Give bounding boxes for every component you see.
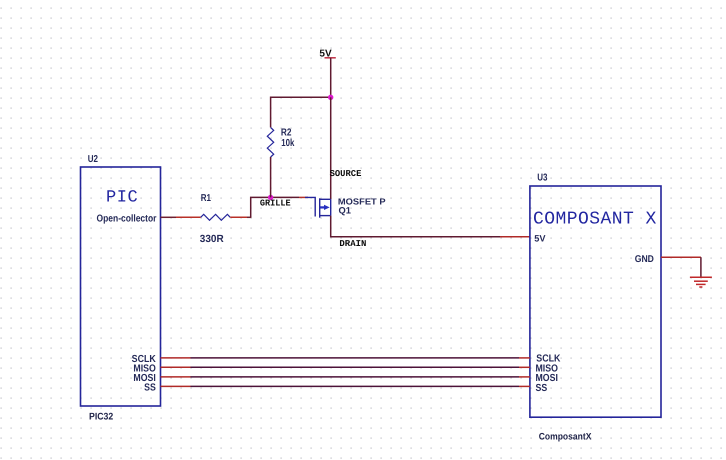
svg-text:SS: SS bbox=[144, 383, 156, 394]
wire SS (U2 to U3) bbox=[161, 385, 530, 387]
svg-text:330R: 330R bbox=[200, 234, 224, 245]
wire: short red segment before gate bbox=[299, 196, 308, 198]
pin stub: U2 Open-collector pin bbox=[161, 216, 177, 218]
transistor Q1 top (source) lead bbox=[320, 198, 331, 200]
svg-text:SS: SS bbox=[536, 383, 548, 394]
svg-text:PIC32: PIC32 bbox=[89, 412, 113, 423]
transistor Q1 gate plate bar bbox=[319, 198, 321, 217]
pin stub: U3 GND pin wire right bbox=[661, 256, 701, 258]
svg-text:COMPOSANT X: COMPOSANT X bbox=[533, 210, 657, 230]
wire: 5V rail down to junction bbox=[330, 58, 332, 98]
ground symbol bbox=[690, 277, 712, 287]
wire MISO (U2 to U3) bbox=[161, 366, 530, 368]
svg-text:10k: 10k bbox=[281, 138, 294, 149]
wire: MOSFET drain down bbox=[331, 216, 500, 237]
wire: GND down to ground bbox=[700, 257, 702, 277]
resistor R1 bbox=[201, 214, 231, 220]
transistor Q1 P-MOSFET gate lead bbox=[305, 197, 315, 216]
wire: R2 top lead up and right to 5V rail bbox=[271, 97, 331, 127]
svg-text:GND: GND bbox=[635, 254, 654, 265]
svg-text:DRAIN: DRAIN bbox=[339, 239, 366, 249]
power symbol 5V bar bbox=[325, 57, 336, 59]
wire: junction down to MOSFET source bbox=[330, 97, 332, 199]
svg-text:U2: U2 bbox=[88, 154, 99, 165]
transistor Q1 middle (bulk) lead with arrow bbox=[320, 206, 325, 208]
chip U2 body (PIC) bbox=[81, 167, 161, 406]
wire: R1 right lead to corner bbox=[230, 216, 247, 218]
svg-text:Q1: Q1 bbox=[339, 205, 351, 215]
svg-text:SOURCE: SOURCE bbox=[330, 169, 362, 179]
svg-text:PIC: PIC bbox=[106, 189, 138, 208]
node GRILLE junction dot bbox=[268, 195, 273, 200]
wire MOSI (U2 to U3) bbox=[161, 376, 530, 378]
wire: corner up to gate level bbox=[251, 197, 299, 217]
resistor R2 bbox=[267, 127, 273, 157]
chip U3 body (COMPOSANT X) bbox=[530, 186, 661, 417]
svg-text:5V: 5V bbox=[534, 234, 546, 244]
transistor Q1 right vertical bar bbox=[330, 199, 332, 215]
svg-text:GRILLE: GRILLE bbox=[260, 199, 291, 209]
svg-text:Open-collector: Open-collector bbox=[97, 214, 157, 225]
svg-text:ComposantX: ComposantX bbox=[539, 432, 592, 443]
svg-text:R1: R1 bbox=[201, 193, 212, 204]
pin stub: U3 5V pin bbox=[500, 236, 530, 238]
transistor Q1 bottom (drain) lead bbox=[320, 215, 331, 217]
node: 5V rail junction dot bbox=[328, 95, 333, 100]
wire SCLK (U2 to U3) bbox=[161, 357, 530, 359]
svg-text:U3: U3 bbox=[537, 173, 548, 184]
wire: R2 bottom lead down to GRILLE node bbox=[270, 157, 272, 197]
